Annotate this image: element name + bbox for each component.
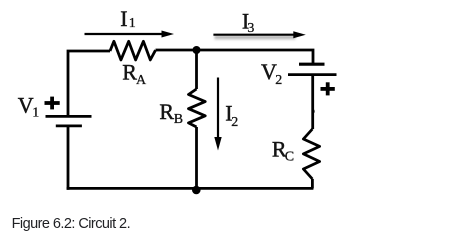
- svg-text:2: 2: [275, 73, 282, 88]
- svg-text:3: 3: [247, 21, 254, 36]
- svg-text:R: R: [122, 59, 137, 84]
- svg-text:B: B: [174, 112, 183, 127]
- svg-text:1: 1: [32, 106, 39, 121]
- svg-text:I: I: [120, 6, 127, 31]
- svg-text:2: 2: [231, 115, 238, 130]
- svg-text:R: R: [159, 99, 174, 124]
- svg-text:A: A: [136, 73, 147, 88]
- svg-text:V: V: [18, 93, 34, 118]
- svg-text:Figure 6.2: Circuit 2.: Figure 6.2: Circuit 2.: [12, 216, 130, 232]
- svg-text:1: 1: [129, 16, 136, 31]
- svg-text:C: C: [285, 149, 294, 164]
